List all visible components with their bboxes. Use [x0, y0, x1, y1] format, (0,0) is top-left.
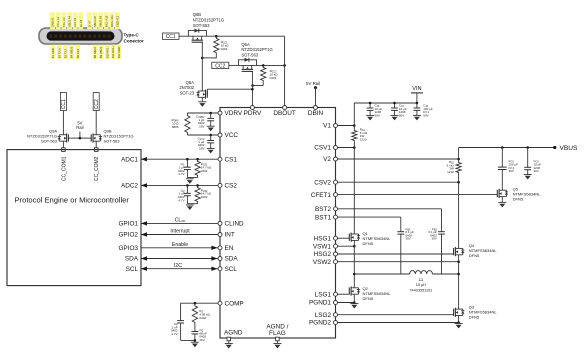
resistor R_CS1: [195, 159, 200, 177]
svg-text:4.7V: 4.7V: [171, 332, 177, 336]
svg-text:DFN5: DFN5: [363, 241, 374, 246]
svg-text:VBUS A4: VBUS A4: [68, 15, 72, 27]
wire C_O1 to Q5 drain: [501, 172, 503, 186]
node C10 junction: [416, 102, 419, 105]
wire Q2 source to ground: [353, 299, 355, 304]
svg-text:0402: 0402: [201, 169, 208, 173]
svg-text:B8 SBU2: B8 SBU2: [93, 47, 97, 59]
svg-text:B9 VBUS: B9 VBUS: [99, 47, 103, 59]
svg-text:TX1+ A2: TX1+ A2: [56, 16, 60, 27]
node DBOUT / Q6A junction: [283, 64, 286, 67]
svg-text:BST1: BST1: [315, 214, 331, 221]
pin CC_COM1 on microcontroller: [62, 148, 66, 152]
wire Q9B gate to 5V rail node: [90, 138, 92, 140]
wire CC2 to Q6A: [229, 64, 239, 66]
svg-text:B3 TX2-: B3 TX2-: [64, 48, 68, 58]
net label CC1 (left, vertical): [60, 93, 67, 111]
wire SCL (bidirectional, I2C): [141, 268, 218, 270]
transistor Q9A: [58, 128, 69, 148]
wire Q6B source down to Q8A drain: [201, 42, 203, 87]
wire BST1 to C_B1: [338, 216, 401, 218]
svg-text:CC1 A5: CC1 A5: [73, 17, 77, 27]
wire CC2 label to Q9B: [95, 111, 97, 129]
svg-text:SOT-563: SOT-563: [241, 53, 258, 58]
transistor Q5: [497, 186, 508, 200]
inductor L1: [410, 271, 433, 274]
ground at AGND/FLAG: [276, 341, 278, 344]
resistor R_Z: [192, 303, 197, 325]
svg-text:SDA: SDA: [225, 256, 239, 263]
capacitor C_C: [194, 325, 196, 332]
svg-text:NTZD3152PT1G: NTZD3152PT1G: [241, 47, 272, 52]
block U2 Protocol Engine or Microcontroller: [7, 150, 141, 286]
node V1 junction: [353, 124, 356, 127]
svg-text:4.7V: 4.7V: [178, 198, 184, 202]
ground at C19: [391, 115, 399, 120]
transistor Q6B (load switch): [188, 29, 206, 43]
svg-text:B1 GND: B1 GND: [51, 48, 55, 58]
svg-text:SCL: SCL: [126, 266, 139, 273]
svg-text:Q6B: Q6B: [193, 12, 202, 17]
capacitor C_VCC: [210, 135, 212, 141]
node R_Z junction: [194, 302, 197, 305]
svg-text:DBOUT: DBOUT: [273, 110, 295, 117]
wire CSV1 to input rail: [338, 147, 355, 149]
svg-text:V2: V2: [323, 156, 331, 163]
svg-text:50V: 50V: [399, 113, 404, 117]
wire VDRV rail: [187, 112, 218, 114]
node PGND1 junction: [353, 301, 356, 304]
wire C_I2/R_CS2 bottom join: [187, 203, 197, 205]
pin AGND/FLAG of U1: [276, 337, 280, 341]
wire HSG2 to Q4 gate: [338, 253, 454, 255]
svg-text:CS2: CS2: [225, 183, 238, 190]
ground at COMP network: [191, 342, 199, 347]
wire input leg upper: [353, 103, 355, 129]
svg-text:0402: 0402: [221, 47, 228, 51]
svg-text:L1: L1: [419, 277, 424, 282]
ground at Q2 source: [350, 304, 358, 309]
node VSW1 junction: [353, 245, 356, 248]
pin BST1 of U1: [334, 215, 338, 219]
pin EN of U1: [218, 246, 222, 250]
capacitor C_O1: [501, 148, 503, 165]
wire switch node right: [432, 273, 458, 275]
ground at Q8A source: [198, 102, 206, 107]
ground at CS2 network: [186, 205, 194, 210]
capacitor C_B1: [400, 229, 402, 231]
svg-text:50V: 50V: [375, 113, 380, 117]
node C_VDRV junction: [209, 112, 212, 115]
resistor R_DRV: [185, 113, 190, 135]
wire BST2 to C_B2: [338, 208, 442, 210]
svg-text:VSW1: VSW1: [313, 243, 332, 250]
svg-text:TX1- A3: TX1- A3: [62, 17, 66, 27]
svg-text:30V: 30V: [509, 169, 514, 173]
wire C_I1/R_CS1 bottom join: [187, 177, 197, 179]
svg-text:VDRV: VDRV: [225, 110, 243, 117]
wire Q5 source to ground: [501, 201, 503, 203]
svg-text:CSV2: CSV2: [314, 179, 331, 186]
controller IC U1 body: [220, 108, 336, 339]
svg-text:COMP: COMP: [225, 300, 244, 307]
svg-text:PGND1: PGND1: [309, 300, 331, 307]
pin CS2 of U1: [218, 183, 222, 187]
wire SDA (bidirectional): [141, 258, 218, 260]
svg-text:Q6A: Q6A: [241, 42, 250, 47]
svg-text:Type-C: Type-C: [124, 33, 140, 38]
svg-text:D- A7: D- A7: [87, 20, 91, 27]
wire LSG1 to Q2 gate: [338, 293, 350, 295]
transistor Q6A (load switch): [239, 58, 257, 72]
svg-text:ADC2: ADC2: [121, 183, 138, 190]
node switch node right junction: [457, 273, 460, 276]
svg-text:SOT-563: SOT-563: [41, 139, 58, 144]
pin COMP of U1: [218, 301, 222, 305]
svg-text:SDA: SDA: [125, 256, 139, 263]
Type-C top pin labels (highlighted): [50, 12, 120, 29]
wire Q1 source to switch node: [353, 244, 355, 284]
svg-text:B12 GND: B12 GND: [117, 47, 121, 59]
node VSW2 junction: [457, 260, 460, 263]
node R_CC2 top junction: [262, 64, 265, 67]
svg-text:30V: 30V: [432, 237, 437, 241]
wire input leg to Q1 drain: [353, 142, 355, 231]
capacitor C_B2: [441, 229, 443, 231]
pin PGND2 of U1: [334, 321, 338, 325]
transistor Q3: [454, 305, 465, 319]
resistor R_CS2: [195, 185, 200, 203]
svg-text:50V: 50V: [423, 113, 428, 117]
svg-text:CFET1: CFET1: [311, 192, 332, 199]
node R_CS1 junction: [196, 158, 199, 161]
svg-text:Enable: Enable: [172, 242, 188, 248]
svg-text:SOT-23: SOT-23: [180, 90, 195, 95]
wire VCC rail: [187, 134, 218, 136]
wire GPIO3 to EN (Enable): [141, 247, 218, 249]
svg-text:CS1: CS1: [225, 156, 238, 163]
pin CS1 of U1: [218, 157, 222, 161]
svg-text:RX2+ A11: RX2+ A11: [110, 15, 114, 27]
wire INT to GPIO2 (Interrupt): [141, 234, 218, 236]
pin V1 of U1: [334, 124, 338, 128]
svg-text:PGND2: PGND2: [309, 320, 331, 327]
pin VCC of U1: [218, 133, 222, 137]
wire VSW2 to Q4 source node: [338, 261, 459, 263]
svg-text:DFN5: DFN5: [469, 253, 480, 258]
Type-C bottom pin labels (highlighted): [51, 45, 122, 60]
wire CLIND to GPIO1: [141, 222, 218, 224]
net label CC2 (left, vertical): [93, 93, 100, 111]
svg-text:Rail: Rail: [76, 125, 83, 130]
svg-text:VIN: VIN: [412, 86, 421, 92]
svg-text:B5 CC2: B5 CC2: [76, 48, 80, 58]
transistor Q2: [349, 283, 360, 298]
Type-C connector J1 body: [39, 28, 122, 44]
resistor R_CC2: [261, 65, 266, 82]
pin CLIND of U1: [218, 221, 222, 225]
wire COMP: [181, 302, 218, 304]
svg-text:DFN5: DFN5: [363, 296, 374, 301]
svg-text:ADC1: ADC1: [121, 156, 138, 163]
svg-text:1210: 1210: [447, 170, 454, 174]
svg-text:HSG1: HSG1: [314, 235, 332, 242]
svg-text:VBUS A9: VBUS A9: [99, 15, 103, 27]
svg-text:CC_COM1: CC_COM1: [61, 156, 67, 181]
node C_VCC junction: [209, 134, 212, 137]
svg-text:RX2- A10: RX2- A10: [104, 15, 108, 27]
Q8A gate wire to PDRV rail: [206, 89, 208, 95]
svg-text:GPIO2: GPIO2: [118, 232, 138, 239]
svg-text:5V Rail: 5V Rail: [306, 81, 320, 86]
net label CC2 (top): [212, 62, 229, 69]
node Q8A gate junction: [251, 88, 254, 91]
ground at C18: [366, 115, 374, 120]
node C19 junction: [393, 102, 396, 105]
svg-text:GPIO3: GPIO3: [118, 245, 138, 252]
capacitor C_O2: [527, 148, 529, 163]
capacitor C19: [394, 103, 396, 108]
svg-text:CC1: CC1: [61, 99, 67, 109]
wire output leg to Q4 drain: [458, 174, 460, 244]
svg-text:4.7V: 4.7V: [178, 172, 184, 176]
svg-text:0402: 0402: [201, 195, 208, 199]
svg-text:0402: 0402: [270, 76, 277, 80]
svg-text:Conector: Conector: [124, 39, 144, 44]
node C_O2 junction: [526, 146, 529, 149]
wire Q6A output to DBOUT rail: [257, 64, 285, 66]
svg-text:25V: 25V: [199, 146, 204, 150]
node R_CC1 top junction: [215, 35, 218, 38]
wire V2 to output leg: [338, 158, 459, 160]
wire LSG2 to Q3 gate: [338, 314, 454, 316]
svg-text:LSG2: LSG2: [315, 312, 332, 319]
pin HSG1 of U1: [334, 236, 338, 240]
svg-text:0402: 0402: [199, 316, 206, 320]
svg-text:CSV1: CSV1: [314, 145, 331, 152]
ground at C_VCC: [207, 148, 215, 153]
svg-text:GND A12: GND A12: [115, 15, 119, 27]
ground at CS1 network: [186, 179, 194, 184]
capacitor C_I1: [186, 159, 188, 167]
transistor Q1: [349, 231, 360, 244]
pin CSV1 of U1: [334, 146, 338, 150]
svg-text:B4 VBUS: B4 VBUS: [70, 47, 74, 59]
svg-text:SCL: SCL: [225, 266, 238, 273]
wire Q3 source to ground: [458, 319, 460, 323]
transistor Q8A: [197, 87, 208, 101]
svg-text:DFN5: DFN5: [513, 197, 524, 202]
wire CC1 label to Q9A: [62, 111, 64, 129]
wire R_CC1 bottom to Q6B source line: [215, 55, 217, 58]
wire PGND2 to Q3 source: [338, 322, 459, 324]
wire C_B2 to VSW2 node: [441, 237, 443, 275]
transistor Q4: [454, 244, 465, 259]
svg-text:CC_COM2: CC_COM2: [94, 156, 100, 181]
svg-text:VSW2: VSW2: [313, 259, 332, 266]
pin CSV2 of U1: [334, 180, 338, 184]
svg-text:DFN5: DFN5: [469, 315, 480, 320]
pin VSW1 of U1: [334, 244, 338, 248]
wire R_CC2 bottom to PDRV rail: [262, 83, 264, 86]
node Q6B source junction: [201, 57, 204, 60]
pin VDRV of U1: [218, 111, 222, 115]
svg-text:EN: EN: [225, 245, 234, 252]
wire ADC2 to CS2 net: [141, 184, 218, 186]
svg-text:SOT-563: SOT-563: [193, 23, 210, 28]
node PDRV/R_CC2 junction: [251, 84, 254, 87]
ground at AGND: [228, 341, 230, 344]
wire VSW1 to Q1 source: [338, 245, 355, 247]
svg-text:SBU1 A8: SBU1 A8: [93, 16, 97, 27]
svg-text:CC1: CC1: [166, 34, 176, 40]
svg-text:30V: 30V: [534, 169, 539, 173]
svg-text:GPIO1: GPIO1: [118, 221, 138, 228]
node Q9 gates junction: [79, 137, 82, 140]
wire Q6B output to DBOUT rail: [206, 35, 284, 37]
node comp ground junction: [194, 339, 197, 342]
svg-text:B10 RX1-: B10 RX1-: [105, 46, 109, 58]
svg-text:CC2: CC2: [94, 99, 100, 109]
svg-text:AGND: AGND: [224, 330, 243, 337]
ground at C10: [413, 115, 421, 120]
svg-text:B11 RX1+: B11 RX1+: [111, 46, 115, 59]
wire ADC1 to CS1 net: [141, 158, 218, 160]
svg-text:0805: 0805: [172, 125, 179, 129]
node C_I2 junction: [186, 184, 189, 187]
svg-text:SOT-563: SOT-563: [104, 139, 121, 144]
wire CC1 to Q6B: [179, 35, 188, 37]
ground at Q5 source: [498, 202, 506, 207]
svg-text:1210: 1210: [360, 137, 367, 141]
VBUS terminal: [553, 146, 556, 149]
svg-text:FLAG: FLAG: [269, 330, 286, 337]
wire HSG1 to Q1 gate: [338, 237, 350, 239]
pin PGND1 of U1: [334, 301, 338, 305]
node switch node left junction: [353, 273, 356, 276]
pin VSW2 of U1: [334, 260, 338, 264]
pin CFET1 of U1: [334, 193, 338, 197]
transistor Q9B: [91, 128, 102, 148]
node C_I1 junction: [186, 158, 189, 161]
pin SCL of U1: [218, 267, 222, 271]
wire CFET1 to Q5 gate: [338, 194, 498, 196]
node C_O1 junction: [501, 146, 504, 149]
node CSV1 junction: [353, 146, 356, 149]
pin SDA of U1: [218, 257, 222, 261]
pin INT of U1: [218, 233, 222, 237]
wire Q9A gate to 5V rail node: [67, 138, 69, 140]
svg-text:PDRV: PDRV: [244, 110, 262, 117]
svg-text:74403551151: 74403551151: [409, 288, 432, 292]
svg-text:CC2: CC2: [215, 63, 225, 69]
node R_CS2 junction: [196, 184, 199, 187]
node PGND2 junction: [457, 321, 460, 324]
wire PGND1 to Q2 source: [338, 302, 355, 304]
ground at C_VDRV: [207, 126, 215, 131]
svg-text:30V: 30V: [405, 237, 410, 241]
svg-text:Interrupt: Interrupt: [170, 229, 190, 235]
wire comp network bottom join: [181, 339, 195, 341]
svg-text:V1: V1: [323, 123, 331, 130]
svg-text:25V: 25V: [199, 124, 204, 128]
capacitor C_P: [180, 303, 182, 320]
wire output leg upper: [458, 148, 460, 162]
svg-text:16V: 16V: [199, 338, 204, 342]
net label CC1 (top): [163, 33, 180, 40]
capacitor C_I2: [186, 185, 188, 193]
ground at Q3 source: [455, 324, 463, 329]
wire Q6A source down to PDRV pin: [251, 71, 253, 105]
svg-text:CLIND: CLIND: [225, 221, 245, 228]
svg-text:VBUS: VBUS: [560, 145, 579, 152]
svg-text:I2C: I2C: [174, 263, 182, 269]
svg-text:LSG1: LSG1: [315, 291, 332, 298]
pin V2 of U1: [334, 157, 338, 161]
resistor R_S1: [352, 129, 357, 142]
svg-text:B2 TX2+: B2 TX2+: [57, 47, 61, 58]
capacitor C18: [369, 102, 371, 104]
svg-text:DBIN: DBIN: [308, 110, 324, 117]
resistor R_CC1: [214, 36, 219, 55]
pin DBOUT of U1: [283, 106, 287, 110]
wire CSV2 to output leg: [338, 181, 459, 183]
capacitor C_VDRV: [210, 113, 212, 118]
resistor R_S2: [456, 161, 461, 174]
pin HSG2 of U1: [334, 252, 338, 256]
5V Rail stub at Q9 gates: [79, 132, 81, 139]
ground at C_O2: [524, 175, 532, 180]
wire Q4 source to switch node: [458, 259, 460, 305]
wire DBOUT rail vertical: [284, 36, 286, 105]
node V2 junction: [457, 158, 460, 161]
svg-text:VCC: VCC: [225, 132, 239, 139]
wire V1 to input rail: [338, 125, 355, 127]
svg-text:HSG2: HSG2: [314, 251, 332, 258]
wire switch node left: [354, 273, 409, 275]
node CSV2 junction: [457, 181, 460, 184]
svg-text:15 μH: 15 μH: [416, 283, 426, 287]
node C18 junction: [369, 102, 372, 105]
wire VBUS rail: [459, 147, 555, 149]
wire VIN rail: [354, 102, 417, 104]
pin LSG1 of U1: [334, 292, 338, 296]
pin LSG2 of U1: [334, 313, 338, 317]
svg-text:INT: INT: [225, 232, 235, 239]
pin BST2 of U1: [334, 207, 338, 211]
svg-text:D+ A6: D+ A6: [79, 19, 83, 27]
svg-text:NTZD3152PT1G: NTZD3152PT1G: [193, 18, 224, 23]
pin PDRV of U1: [250, 106, 254, 110]
pin DBIN of U1: [314, 106, 318, 110]
svg-text:GND A1: GND A1: [51, 17, 55, 27]
pin AGND of U1: [227, 337, 231, 341]
svg-text:BST2: BST2: [315, 206, 331, 213]
pin CC_COM2 on microcontroller: [94, 148, 98, 152]
wire C_B1 to VSW1 node: [400, 237, 402, 275]
capacitor C10: [416, 103, 418, 108]
svg-text:Protocol Engine or Microcontro: Protocol Engine or Microcontroller: [15, 196, 130, 205]
